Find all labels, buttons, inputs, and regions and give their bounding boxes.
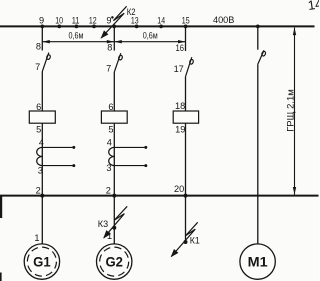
svg-text:3: 3 xyxy=(106,163,111,173)
svg-text:2: 2 xyxy=(36,186,41,196)
svg-text:2: 2 xyxy=(106,186,111,196)
dimension 0,6м (feeder1-feeder2) xyxy=(42,31,114,44)
svg-text:20: 20 xyxy=(174,184,184,194)
wire feeder1: bus to switch xyxy=(41,27,43,50)
junction dot M1 feeder on top bus xyxy=(256,25,260,29)
node 15 xyxy=(182,15,190,28)
fuse/breaker box feeder3 xyxy=(173,111,198,123)
svg-text:7: 7 xyxy=(106,63,111,73)
wire feeder1: fuse to bottom bus xyxy=(41,123,43,195)
vertical dimension ГРЩ 2,1м xyxy=(286,28,297,195)
switch QS feeder2 xyxy=(114,53,123,72)
svg-text:5: 5 xyxy=(108,124,113,134)
svg-text:9: 9 xyxy=(106,15,111,25)
fuse/breaker box feeder2 xyxy=(101,111,127,123)
svg-text:8: 8 xyxy=(107,42,112,52)
dimension 0,6м (feeder2-feeder3) xyxy=(114,31,185,44)
node 11 xyxy=(72,15,80,28)
svg-text:16: 16 xyxy=(176,43,185,53)
short-circuit point K2 (lightning arrow) xyxy=(98,6,135,40)
svg-text:7: 7 xyxy=(35,62,40,72)
trip coil feeder1 (two arcs) xyxy=(37,147,43,165)
svg-text:1: 1 xyxy=(107,231,112,241)
scan artifact bottom left xyxy=(0,273,2,281)
wire feeder2: bus to G2 xyxy=(113,197,115,245)
svg-text:5: 5 xyxy=(36,124,41,134)
svg-text:3: 3 xyxy=(38,166,43,176)
svg-text:К1: К1 xyxy=(190,235,200,245)
junction dot feeder1 / bottom bus xyxy=(40,194,44,198)
node 14 xyxy=(157,15,165,28)
wire feeder4: switch to M1 xyxy=(257,64,259,244)
node 13 xyxy=(131,15,139,28)
wire feeder3 stub below bus xyxy=(185,197,187,243)
wire feeder4: bus to switch xyxy=(257,27,259,49)
wire feeder2: switch to fuse xyxy=(113,72,115,111)
top bus 400V xyxy=(0,25,315,27)
svg-text:1: 1 xyxy=(34,233,39,243)
svg-text:8: 8 xyxy=(36,42,41,52)
svg-text:400В: 400В xyxy=(213,15,234,25)
svg-text:10: 10 xyxy=(55,15,63,25)
node 9 xyxy=(39,15,44,28)
wire feeder3: switch to fuse xyxy=(185,77,187,111)
svg-text:14: 14 xyxy=(157,15,165,25)
svg-text:G2: G2 xyxy=(105,255,123,270)
svg-text:15: 15 xyxy=(182,15,190,25)
coil tap bottom feeder2 xyxy=(114,164,147,167)
svg-text:18: 18 xyxy=(175,101,185,111)
bottom bus (generator bus) xyxy=(0,195,319,197)
svg-text:4: 4 xyxy=(107,137,112,147)
svg-text:0,6м: 0,6м xyxy=(69,31,84,41)
coil tap top feeder2 xyxy=(114,146,147,149)
svg-text:0,6м: 0,6м xyxy=(143,31,158,41)
svg-text:К2: К2 xyxy=(127,7,136,17)
wire feeder3: bus to switch xyxy=(185,27,187,51)
svg-text:G1: G1 xyxy=(33,255,51,270)
node 10 xyxy=(55,15,63,28)
generator G2 xyxy=(97,244,132,279)
svg-text:19: 19 xyxy=(175,124,185,134)
trip coil feeder2 (two arcs) xyxy=(109,147,115,165)
svg-text:17: 17 xyxy=(174,64,184,74)
coil tap top feeder1 xyxy=(42,146,75,149)
wire feeder2: fuse to bottom bus xyxy=(113,123,115,195)
junction dot K3 on feeder2 xyxy=(112,226,116,230)
fuse/breaker box feeder1 xyxy=(29,111,55,123)
svg-text:12: 12 xyxy=(89,15,97,25)
switch QS feeder3 xyxy=(186,57,194,76)
junction dot K1 on feeder3 xyxy=(184,240,188,244)
short-circuit point K1 (lightning arrow) xyxy=(168,222,199,259)
junction dot feeder2 / bottom bus xyxy=(112,194,116,198)
switch QS feeder4 xyxy=(258,50,266,64)
svg-text:К3: К3 xyxy=(98,219,108,229)
svg-text:ГРЩ 2,1м: ГРЩ 2,1м xyxy=(286,89,296,132)
wire feeder2: bus to switch xyxy=(113,27,115,50)
svg-text:4: 4 xyxy=(39,137,44,147)
node 12 xyxy=(89,15,97,28)
switch QS feeder1 xyxy=(42,53,51,72)
generator G1 xyxy=(24,244,59,279)
wire feeder1: switch to fuse xyxy=(41,72,43,112)
svg-text:9: 9 xyxy=(39,15,44,25)
wire feeder3: fuse to bottom bus xyxy=(185,123,187,195)
motor M1 xyxy=(240,244,275,279)
junction dot feeder3 / bottom bus xyxy=(184,194,188,198)
svg-text:14: 14 xyxy=(307,0,319,13)
scan artifact left edge xyxy=(0,196,2,218)
svg-text:М1: М1 xyxy=(248,255,268,270)
wire feeder1: bus to G1 xyxy=(41,197,43,245)
node 9' xyxy=(106,15,116,28)
short-circuit point K3 (lightning arrow) xyxy=(98,206,127,240)
svg-text:11: 11 xyxy=(72,15,80,25)
coil tap bottom feeder1 xyxy=(42,164,75,167)
